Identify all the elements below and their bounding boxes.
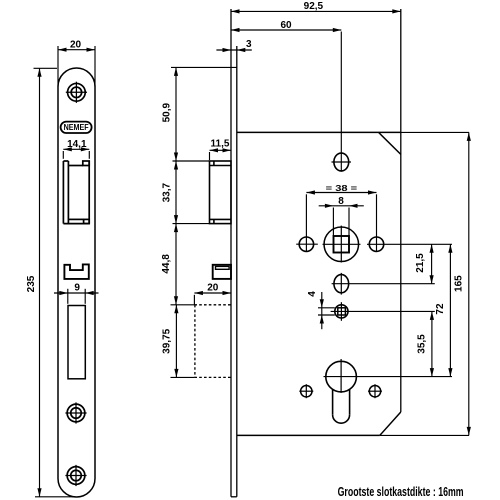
svg-text:Grootste slotkastdikte : 16mm: Grootste slotkastdikte : 16mm bbox=[338, 485, 464, 499]
svg-text:11,5: 11,5 bbox=[211, 138, 230, 149]
svg-text:20: 20 bbox=[70, 39, 82, 50]
svg-text:39,75: 39,75 bbox=[161, 328, 172, 353]
svg-text:72: 72 bbox=[435, 303, 446, 315]
svg-text:35,5: 35,5 bbox=[417, 334, 428, 354]
svg-text:235: 235 bbox=[26, 275, 37, 292]
svg-text:60: 60 bbox=[280, 20, 292, 31]
svg-text:92,5: 92,5 bbox=[304, 1, 324, 12]
svg-text:20: 20 bbox=[207, 282, 219, 293]
svg-text:44,8: 44,8 bbox=[161, 254, 172, 274]
svg-text:8: 8 bbox=[338, 196, 344, 207]
svg-text:50,9: 50,9 bbox=[162, 103, 173, 123]
svg-text:165: 165 bbox=[454, 275, 465, 292]
svg-text:21,5: 21,5 bbox=[415, 253, 426, 273]
svg-text:33,7: 33,7 bbox=[162, 183, 173, 203]
svg-text:NEMEF: NEMEF bbox=[64, 123, 89, 132]
svg-text:9: 9 bbox=[74, 283, 80, 294]
svg-text:= 38 =: = 38 = bbox=[326, 183, 358, 193]
svg-text:4: 4 bbox=[307, 291, 318, 297]
svg-text:3: 3 bbox=[246, 39, 252, 50]
